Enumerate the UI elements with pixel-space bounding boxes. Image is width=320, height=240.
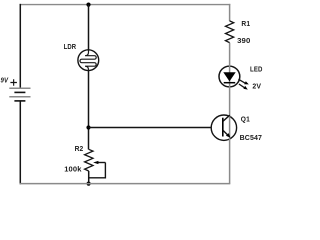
wire top rail xyxy=(20,4,231,6)
transistor Q1 emitter arrowhead xyxy=(226,133,231,138)
LDR serpentine track xyxy=(80,49,96,72)
battery BT1 plate long lower xyxy=(9,96,30,98)
battery BT1 plate long top xyxy=(9,87,30,89)
svg-text:LDR: LDR xyxy=(64,42,77,51)
transistor Q1 base bar xyxy=(222,118,224,137)
LED emission arrow 1 shaft xyxy=(238,79,245,83)
LED emission arrow 1 head xyxy=(244,81,249,84)
junction node bottom xyxy=(87,182,91,186)
transistor Q1 body xyxy=(211,115,236,140)
LED D1 body xyxy=(219,66,240,87)
LED emission arrow 2 head xyxy=(243,86,247,90)
svg-text:LED: LED xyxy=(250,65,263,74)
wire LDR to R2 lead xyxy=(88,71,90,150)
wire LDR column upper lead xyxy=(88,5,90,51)
R2 wiper arrow shaft xyxy=(98,162,106,164)
svg-text:BC547: BC547 xyxy=(240,133,263,142)
svg-text:9V: 9V xyxy=(1,76,9,85)
wire bottom rail xyxy=(20,183,231,185)
svg-text:R2: R2 xyxy=(75,144,84,153)
svg-text:2V: 2V xyxy=(252,82,262,91)
svg-text:R1: R1 xyxy=(241,19,250,28)
battery BT1 plate short upper xyxy=(14,91,25,93)
LED emission arrow 2 shaft xyxy=(239,84,245,88)
svg-text:390: 390 xyxy=(237,36,250,45)
LDR photoresistor body xyxy=(78,50,99,71)
LED triangle anode xyxy=(223,72,235,81)
svg-text:100k: 100k xyxy=(64,165,82,174)
wire base of Q1 xyxy=(89,127,223,129)
resistor R1 zigzag xyxy=(226,21,234,43)
svg-text:Q1: Q1 xyxy=(241,114,251,123)
junction node base tee xyxy=(86,125,90,129)
transistor Q1 emitter stroke xyxy=(223,130,228,135)
R2 wiper loop wire xyxy=(89,163,106,178)
R2 wiper arrowhead xyxy=(93,161,98,164)
battery BT1 plate short bottom xyxy=(14,100,25,102)
wire left rail xyxy=(19,4,21,184)
wire right rail xyxy=(229,4,231,184)
junction node top xyxy=(86,3,90,7)
battery plus sign xyxy=(10,79,17,86)
R2 bottom lead xyxy=(88,171,90,184)
resistor R2 zigzag xyxy=(85,149,93,171)
transistor Q1 collector stroke xyxy=(223,115,230,121)
LED cathode bar xyxy=(224,82,236,84)
